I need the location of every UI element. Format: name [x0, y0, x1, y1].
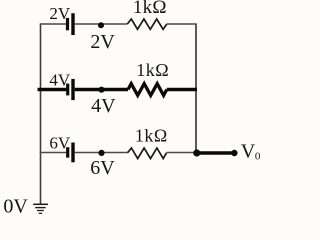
svg-text:2V: 2V: [49, 4, 71, 23]
svg-text:6V: 6V: [49, 134, 71, 153]
svg-text:1kΩ: 1kΩ: [136, 60, 169, 80]
svg-text:4V: 4V: [91, 95, 116, 117]
node dot top branch: [98, 22, 104, 28]
battery V3 6V: [66, 143, 75, 163]
node junction output: [193, 149, 200, 156]
svg-text:2V: 2V: [90, 31, 115, 53]
resistor 1k ohm top: [127, 19, 167, 29]
wire top branch resistor to right bus: [167, 23, 197, 25]
wire middle branch left segment (thick): [38, 88, 67, 91]
wire right vertical bus: [195, 24, 197, 153]
battery V1 2V: [66, 13, 75, 35]
wire bottom branch left segment: [40, 152, 66, 154]
resistor 1k ohm bottom: [128, 148, 167, 159]
label V0 output: [241, 141, 261, 163]
wire bottom branch battery to resistor: [75, 152, 128, 154]
wire left vertical bus: [40, 24, 42, 204]
svg-text:V: V: [241, 141, 256, 163]
wire output stub (thick): [197, 151, 234, 155]
wire middle branch resistor to right bus (thick): [167, 88, 197, 91]
svg-text:0: 0: [255, 150, 261, 162]
node dot middle branch: [98, 87, 104, 93]
node output terminal dot: [231, 150, 237, 156]
svg-text:1kΩ: 1kΩ: [133, 0, 167, 18]
svg-text:6V: 6V: [90, 157, 115, 179]
battery V2 4V: [66, 79, 75, 100]
wire top branch left segment: [40, 23, 66, 25]
wire middle branch battery to resistor (thick): [75, 88, 128, 91]
svg-text:1kΩ: 1kΩ: [135, 125, 168, 145]
svg-text:0V: 0V: [3, 196, 28, 217]
resistor 1k ohm middle (thick): [128, 84, 167, 96]
ground: [33, 204, 48, 213]
wire bottom branch resistor to right bus: [167, 152, 197, 154]
wire top branch battery to resistor: [75, 23, 128, 25]
svg-text:4V: 4V: [49, 71, 71, 90]
node dot bottom branch: [98, 150, 104, 156]
